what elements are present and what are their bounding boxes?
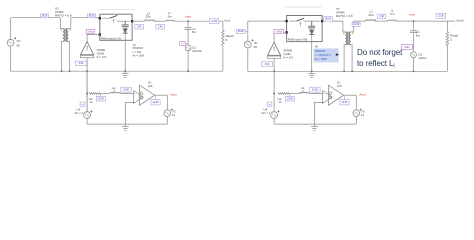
annotation Do not forget to reflect L1 [357,48,403,70]
svg-text:LoL: LoL [112,87,117,90]
svg-text:K = 0.5: K = 0.5 [97,55,107,59]
svg-text:120Vdc: 120Vdc [192,49,202,53]
wire L1 to rL (right) [375,20,388,22]
wire source to PWM block (right) [248,21,287,41]
voltage source Vin (36 V input, right circuit) [244,39,258,49]
svg-text:Do not forget: Do not forget [357,48,403,57]
svg-text:2.40: 2.40 [137,27,142,29]
svg-text:Aout: Aout [359,92,365,96]
wire source bottom to ground rail [10,46,12,71]
svg-text:36.00: 36.00 [238,31,244,33]
capacitor C 5m (right) [410,30,420,37]
svg-text:10.00: 10.00 [98,99,104,101]
wire source bottom to rail (right) [247,48,249,71]
ammeter label box after PWM block (left) [135,25,144,29]
resistor RoL 10 (left) [89,93,101,105]
transformer X7 core [348,32,349,46]
junction dot sub-circuit (left) [86,93,88,95]
svg-text:AC = 1: AC = 1 [262,111,271,115]
net label Vout (left) [224,19,231,23]
svg-text:+out: +out [185,15,191,19]
wire op-amp output (right) [344,94,357,96]
svg-text:12.00: 12.00 [353,24,359,26]
duty label box 0.50 (left) [75,61,86,65]
wire gain lead down to AC source (right) [273,71,275,112]
inductor L1 (right) [365,10,375,22]
label box on op-amp output (right) [340,95,349,105]
transformer X7 polarity dot secondary [352,33,354,35]
junction dots right rail [273,70,414,72]
svg-text:Fs = 100k: Fs = 100k [133,53,145,57]
node label box +Vsw (purple) [87,29,95,33]
svg-text:LoL: LoL [301,87,306,90]
bottom rail sub-circuit (right) [274,123,356,125]
svg-text:12.00: 12.00 [211,21,217,23]
transformer X7 label [336,7,353,18]
svg-text:10.00: 10.00 [123,89,129,91]
wire rL to output node (right) [396,20,436,22]
svg-text:36: 36 [254,45,258,49]
wire L1 to rL [154,20,166,22]
label box after RoL (right) [285,94,294,101]
svg-text:5m: 5m [168,14,173,18]
resistor RoL 10 (right) [278,93,290,105]
ammeter label box after L1 (left) [156,25,165,29]
svg-text:PWMVM: PWMVM [315,49,326,53]
voltmeter label box on secondary wire [87,14,95,18]
svg-text:0.50: 0.50 [79,63,84,65]
duty label box 0.50 (right) [261,62,272,66]
node label box (purple, cap branch left) [180,41,188,45]
op-amp E1 100 (left) [134,80,155,105]
wire capacitor to V2 [187,29,189,45]
wire to V3 (left) [166,95,168,110]
svg-text:PWMVM: PWMVM [133,46,143,50]
svg-text:12.00: 12.00 [342,102,348,104]
voltmeter label box on input wire [41,14,49,18]
voltmeter label box on output wire (left) [209,19,218,24]
dc source C2 1200u (right) [411,52,427,60]
wire op-amp plus input to ground (right) [314,102,323,124]
inductor LoL 10 (right) [299,87,309,94]
wire PWM block duty input to gain [87,35,100,42]
node +out (red, right) [409,12,415,22]
svg-text:25u: 25u [146,15,151,19]
ground rail left circuit [11,70,223,72]
wire C2 to rail (right) [413,58,415,72]
svg-text:AC = 1: AC = 1 [75,111,84,115]
wire V2 to ground rail [187,51,189,71]
svg-text:100: 100 [148,84,153,88]
svg-text:E1: E1 [148,80,152,84]
transformer X2 secondary winding [67,18,71,71]
ground main right [308,71,315,77]
label box after LoL (right) [310,87,320,93]
dc source V3 12 (left) [164,109,176,118]
svg-text:2.40: 2.40 [379,16,384,18]
PWM switch averaged-model block X8 [285,16,323,42]
wire source top to top rail corner [10,18,12,40]
svg-text:0.50: 0.50 [265,64,270,66]
label box after L1 (right) [378,14,386,19]
svg-text:L = 25u: L = 25u [133,50,142,54]
transformer X7 secondary winding [349,21,353,71]
svg-text:‹Vout: ‹Vout [224,19,231,23]
svg-text:PWM switch VM: PWM switch VM [288,38,308,42]
ground main left [122,71,129,77]
node label box on source wire (right) [267,102,272,106]
gain block XFMR GAIN K=0.5 (left) [81,42,94,58]
highlighted parameter text PWMSW L = 25u/0.8^2 Rs = 100k [314,48,340,62]
svg-text:RATIO = 0.8: RATIO = 0.8 [336,14,353,18]
wire output node to capacitor (right) [413,21,415,30]
wire RoL to LoL (right) [290,93,299,95]
junction dot sub-circuit (right) [273,93,275,95]
wire transformer secondary to PWM block [71,17,100,19]
op-amp E1 100 (right) [323,80,344,105]
selection remnant line above left PWM block [97,9,135,11]
voltmeter label box on output (right) [436,13,445,18]
voltmeter label box input (right) [236,29,248,33]
ac source U4 AC=1 (left) [75,107,93,118]
gain block XFMR GAIN K=0.5 (right) [268,42,281,58]
svg-text:PWM switch LTD: PWM switch LTD [101,36,121,40]
bottom rail sub-circuit (left) [87,123,167,125]
node label box on source wire (left) [80,102,85,106]
svg-text:36.00: 36.00 [42,16,48,18]
svg-text:12: 12 [361,113,365,117]
wire U4 to bottom rail (left) [86,119,88,125]
svg-text:5m: 5m [416,33,421,37]
svg-text:Aout: Aout [170,92,176,96]
inductor L1 (left) [144,11,154,21]
node +out (red, left) [185,15,191,23]
svg-text:10.00: 10.00 [312,89,318,91]
resistor rL 5m (left) [166,11,175,21]
svg-text:1200u: 1200u [418,56,426,60]
wire PWM block internal to ground (right) [311,42,313,72]
wire top rail to transformer primary [11,17,61,19]
dc source V3 12 (right) [353,109,365,118]
ground sub-circuit (right) [311,124,318,130]
transformer X2 polarity dot secondary [69,29,71,31]
junction dots on left rail [61,70,189,72]
wire to Rload corner [219,20,223,22]
wire gain to rail and AC source (right) [273,58,275,71]
wire U4 to bottom rail (right) [273,119,275,125]
wire LoL to op-amp (right) [309,93,324,95]
svg-text:K = 0.5: K = 0.5 [283,56,293,60]
wire V3 to bottom rail (left) [166,117,168,125]
dc source V2 120Vdc (left) [185,45,202,53]
label box after LoL (left) [121,87,131,93]
transformer X7 primary winding [343,21,347,71]
wire V3 to bottom rail (right) [355,117,357,125]
label box on op-amp output (left) [151,95,160,105]
label X8 [315,44,319,48]
ground sub-circuit (left) [122,124,129,130]
svg-text:‹Vout2: ‹Vout2 [456,19,465,23]
gain block label (right) [283,49,293,60]
svg-text:E1: E1 [337,80,341,84]
net label Vout2 (right) [456,19,465,23]
voltmeter label box after X7 [352,22,360,26]
label box after RoL (left) [96,94,105,101]
svg-text:5m: 5m [390,12,395,16]
svg-text:120V: 120V [404,47,410,49]
wire to Rload corner (right) [436,20,455,22]
svg-text:25u: 25u [369,13,374,17]
wire PWM duty input to gain (right) [274,32,287,42]
net label Aout (red) (right) [359,92,365,96]
svg-text:36: 36 [16,43,20,47]
wire rL to output node [174,20,210,22]
voltmeter label box before X7 [324,17,333,22]
svg-text:12.00: 12.00 [438,16,444,18]
transformer X2 label X2 XFMR RATIO = 0.8 [55,7,72,18]
voltage source Vin (36 V input, left circuit) [7,37,21,47]
svg-text:RATIO = 0.8: RATIO = 0.8 [55,14,72,18]
ac source U4 AC=1 (right) [262,107,280,118]
svg-text:+Vsw: +Vsw [88,31,94,33]
capacitor C 5m (left) [185,27,197,34]
svg-text:2.40: 2.40 [158,27,163,29]
PWM switch averaged-model block X6 [99,14,134,40]
wire gain lead down to AC source (left) [86,71,88,112]
resistor Rload 5 (right) [446,21,458,71]
svg-text:10.00: 10.00 [287,99,293,101]
transformer X2 primary winding [60,18,64,71]
node label box +Vsw (purple right) [274,29,284,33]
transformer X2 polarity dot primary [61,29,63,31]
svg-text:12.00: 12.00 [153,102,159,104]
wire gain block to ground rail and AC source below [86,58,88,112]
wire PWM block internal node to ground [124,40,126,71]
wire PWM block output to transformer X7 [322,20,343,22]
net label Aout (red) (left) [170,92,176,96]
wire PWM block output to L1 [132,20,144,22]
svg-text:+out: +out [409,12,415,16]
wire RoL to LoL (left) [101,93,110,95]
node label box (purple, cap branch right) [402,44,414,49]
wire LoL to op-amp (left) [120,93,135,95]
wire output node to capacitor [187,21,189,27]
svg-text:12: 12 [172,113,176,117]
label X6 PWMVM parameters [133,43,145,57]
gain block label XFMR GAIN K = 0.5 [97,48,107,59]
inductor LoL 10 (left) [110,87,120,94]
wire op-amp plus input to ground (left) [125,102,134,124]
selection remnant line above right PWM block [285,6,322,8]
ground rail right circuit [248,70,448,72]
wire op-amp output (left) [155,94,168,96]
svg-text:36.00: 36.00 [325,19,331,21]
wire to V3 (right) [355,95,357,110]
resistor rL 5m (right) [388,9,397,22]
svg-text:L = 25u/0.8^2: L = 25u/0.8^2 [315,53,332,57]
wire X7 to L1 (right) [353,20,365,22]
resistor Rload 5 (left) [222,21,234,71]
svg-text:5m: 5m [192,30,197,34]
wire capacitor to C2 source (right) [413,33,415,52]
transformer X7 polarity dot primary [343,33,345,35]
svg-text:100: 100 [337,84,342,88]
svg-text:X8: X8 [315,44,319,48]
svg-text:+vTsw: +vTsw [276,31,283,33]
svg-text:36.00: 36.00 [89,16,95,18]
transformer X2 core [65,28,66,42]
svg-text:Fs = 100k: Fs = 100k [315,57,328,61]
